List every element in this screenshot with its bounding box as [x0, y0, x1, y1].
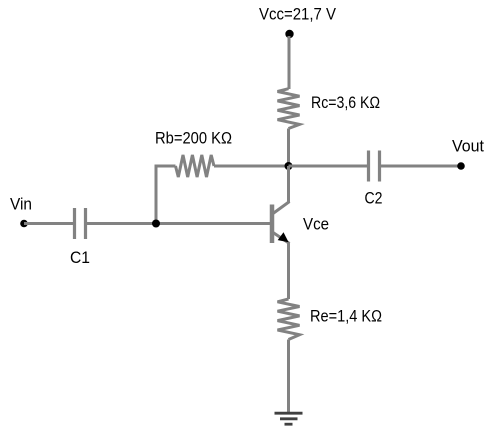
wire node A to C2	[289, 165, 368, 168]
wire emitter to Re	[287, 243, 290, 300]
wire Rb to node A	[214, 165, 289, 168]
svg-text:Rc=3,6 KΩ: Rc=3,6 KΩ	[311, 93, 380, 112]
transistor Q1	[272, 202, 290, 244]
wire C1 to base	[87, 222, 270, 225]
wire C2 to Vout	[381, 165, 461, 168]
wire collector vertical	[287, 166, 290, 203]
capacitor C1	[75, 208, 86, 239]
svg-text:Re=1,4 KΩ: Re=1,4 KΩ	[310, 307, 382, 326]
wire Re to ground	[287, 340, 290, 413]
resistor Re	[278, 299, 300, 340]
svg-text:Vout: Vout	[452, 137, 484, 156]
ground	[275, 413, 303, 424]
wire Rb left corner	[156, 166, 176, 225]
svg-text:Vin: Vin	[10, 195, 32, 214]
node B junction dot	[152, 220, 160, 228]
node Vcc terminal dot	[285, 30, 293, 38]
svg-text:C1: C1	[70, 248, 90, 267]
wire Rc to node A	[287, 129, 290, 167]
node A junction dot	[285, 162, 293, 170]
svg-text:C2: C2	[365, 189, 383, 208]
wire Vcc to Rc	[288, 36, 291, 89]
wire Vin to C1	[24, 222, 73, 225]
resistor Rb	[176, 155, 215, 177]
svg-text:Vcc=21,7 V: Vcc=21,7 V	[259, 5, 337, 24]
node Vout terminal dot	[457, 162, 465, 170]
node Vin terminal dot	[20, 220, 28, 228]
resistor Rc	[278, 89, 300, 129]
capacitor C2	[369, 151, 380, 182]
svg-text:Rb=200 KΩ: Rb=200 KΩ	[155, 129, 232, 148]
svg-text:Vce: Vce	[303, 215, 329, 234]
